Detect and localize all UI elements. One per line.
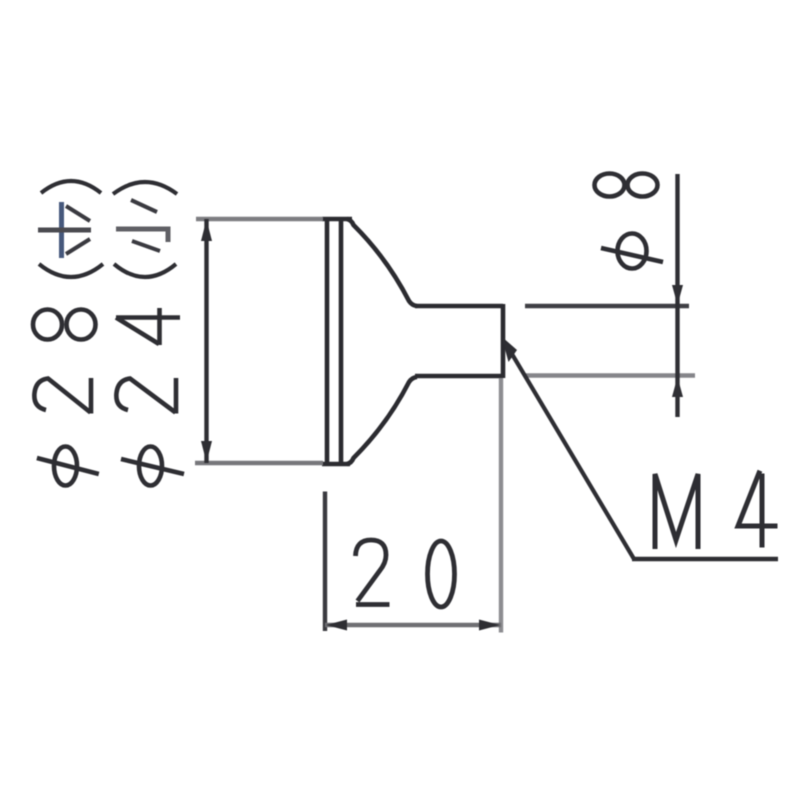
neck bottom line [415, 374, 503, 379]
left column 2: kanji shou ticks [131, 200, 160, 251]
extension line bottom left (phi28) [195, 461, 323, 466]
left column 1: glyph 8 [33, 310, 96, 340]
left column 1: phi glyph [37, 447, 99, 486]
extension line phi8 bottom right [526, 373, 695, 377]
text M [655, 474, 698, 547]
dimension line phi28 vertical [204, 219, 208, 463]
extension line 20 right vertical [499, 378, 503, 633]
left column 2: kanji shou main stroke with hook [116, 229, 168, 242]
text phi8 rotated: glyph 8 [595, 174, 658, 197]
left column 2: paren open rotated [114, 264, 176, 277]
flange outline [322, 219, 352, 464]
text 2 (dim 20) [356, 540, 390, 605]
left column 2: phi glyph [121, 447, 184, 486]
arrowhead up [201, 220, 212, 242]
bell top curve [347, 219, 417, 306]
extension line top left (phi28) [196, 217, 323, 222]
left column 1: kanji ki horizontal stroke [38, 228, 91, 233]
leader arrowhead M4 [502, 337, 518, 363]
dimension line 20 horizontal [325, 623, 501, 627]
left column 2: glyph 4 rotated [116, 308, 180, 345]
arrowhead phi8 pointing up [672, 377, 683, 397]
left column 1: kanji ki vertical stroke [59, 202, 64, 258]
neck right edge [501, 304, 506, 378]
arrowhead 20 right [479, 620, 500, 631]
left column 1: glyph 2 [34, 378, 91, 414]
extension line phi8 top right [525, 304, 689, 308]
extension line 20 left vertical [323, 492, 327, 632]
text 4 (M4) [738, 473, 775, 545]
text 0 (dim 20) [428, 541, 455, 607]
dimension line phi8 vertical [675, 174, 679, 417]
left column 1: paren close rotated [41, 181, 101, 193]
text phi8 rotated: glyph phi [601, 234, 663, 269]
bell bottom curve [347, 377, 417, 464]
leader underline M4 [632, 557, 778, 562]
arrowhead phi8 pointing down [672, 285, 683, 305]
left column 2: paren close rotated [113, 182, 177, 194]
neck top line [415, 304, 503, 309]
leader diagonal M4 [506, 344, 634, 559]
left column 2: glyph 2 [116, 378, 176, 414]
arrowhead down [201, 441, 212, 463]
left column 1: kanji ki diagonal strokes [66, 206, 90, 254]
arrowhead 20 left [326, 620, 347, 631]
left column 1: paren open rotated [39, 264, 103, 277]
